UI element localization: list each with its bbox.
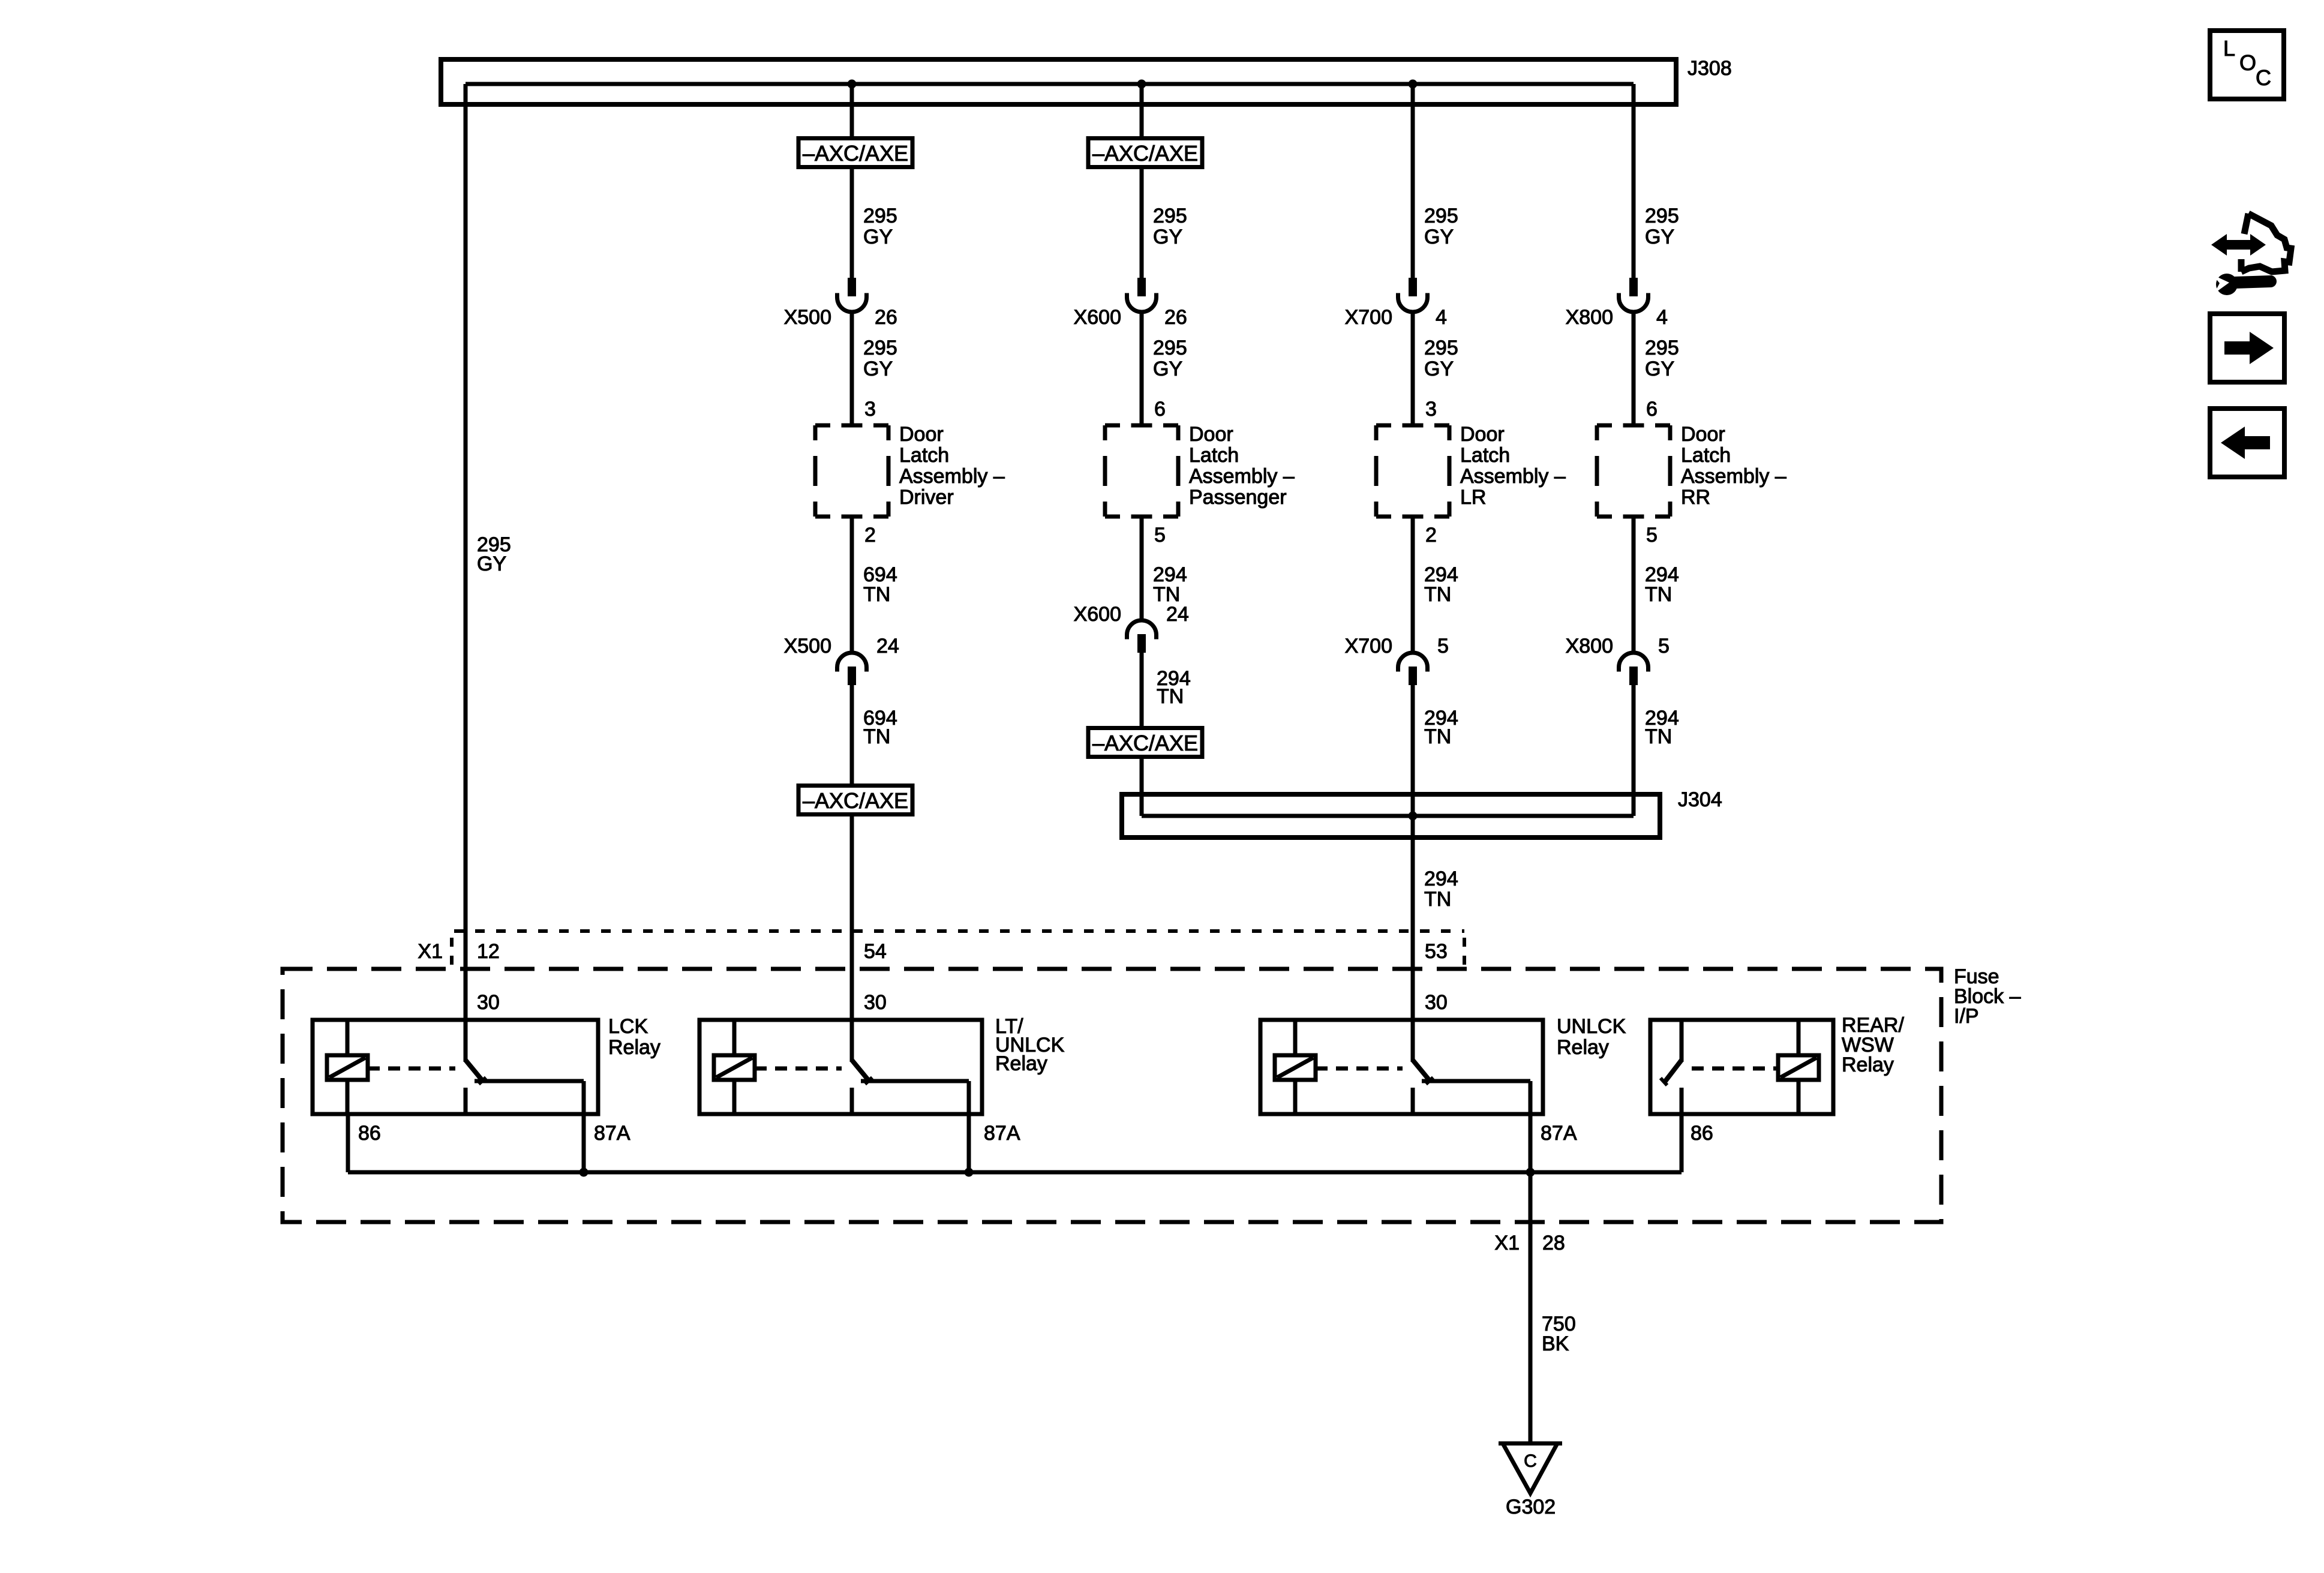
node splice J308 LR bbox=[1409, 80, 1418, 89]
svg-text:TN: TN bbox=[863, 725, 890, 748]
wire 295 GY RR below X800 bbox=[1632, 312, 1636, 425]
relay UNLCK switch pivot bbox=[1411, 1020, 1415, 1062]
relay UNLCK contact to output bbox=[1422, 1079, 1530, 1083]
wire 295 GY left drop J308 to LCK relay bbox=[464, 84, 468, 1062]
svg-text:GY: GY bbox=[1153, 226, 1182, 248]
svg-text:L: L bbox=[2223, 36, 2235, 61]
svg-text:X700: X700 bbox=[1345, 635, 1392, 658]
relay LCK box bbox=[313, 1020, 598, 1114]
svg-text:O: O bbox=[2239, 50, 2256, 75]
wire REAR/WSW pin 86 drop bbox=[1680, 1114, 1684, 1172]
relay LT/UNLCK contact to output bbox=[861, 1079, 969, 1083]
relay LCK coil wire bottom bbox=[346, 1080, 350, 1114]
svg-text:–AXC/AXE: –AXC/AXE bbox=[1092, 731, 1198, 755]
relay REAR/WSW switch throw stub bbox=[1680, 1088, 1684, 1114]
svg-text:5: 5 bbox=[1437, 635, 1449, 658]
node splice UNLCK 87A bbox=[1526, 1168, 1535, 1177]
connector X700 pin 4 female terminal bbox=[1398, 293, 1428, 313]
svg-text:Assembly –: Assembly – bbox=[1189, 465, 1295, 488]
svg-text:X1: X1 bbox=[1494, 1232, 1520, 1254]
svg-text:X700: X700 bbox=[1345, 306, 1392, 329]
relay LCK switch blade bbox=[466, 1060, 482, 1080]
svg-text:GY: GY bbox=[1153, 358, 1182, 380]
svg-text:X500: X500 bbox=[784, 635, 831, 658]
svg-text:4: 4 bbox=[1656, 306, 1668, 329]
door latch assembly passenger dashed box bbox=[1105, 425, 1178, 517]
svg-text:12: 12 bbox=[477, 940, 500, 963]
svg-text:24: 24 bbox=[876, 635, 899, 658]
svg-text:–AXC/AXE: –AXC/AXE bbox=[803, 788, 908, 813]
svg-text:Passenger: Passenger bbox=[1189, 486, 1287, 509]
connector X800 pin 5 female terminal bbox=[1619, 653, 1649, 672]
svg-text:30: 30 bbox=[1425, 991, 1448, 1014]
fuse block I/P dashed border bbox=[283, 969, 1941, 1222]
svg-text:54: 54 bbox=[864, 940, 887, 963]
svg-text:Relay: Relay bbox=[608, 1036, 660, 1059]
svg-text:2: 2 bbox=[864, 524, 876, 547]
relay UNLCK box bbox=[1260, 1020, 1543, 1114]
wire passenger into J304 bbox=[1140, 759, 1144, 816]
svg-text:GY: GY bbox=[863, 358, 893, 380]
svg-text:295: 295 bbox=[1424, 337, 1458, 359]
svg-text:Latch: Latch bbox=[1460, 444, 1510, 467]
svg-text:5: 5 bbox=[1154, 524, 1166, 547]
svg-text:I/P: I/P bbox=[1954, 1005, 1979, 1028]
connector X500 pin 24 female terminal bbox=[837, 653, 867, 672]
svg-text:295: 295 bbox=[1424, 205, 1458, 227]
connector X800 pin 5 male pin bbox=[1629, 667, 1638, 685]
wire 750 BK UNLCK 87A to ground G302 bbox=[1529, 1114, 1533, 1443]
splice pack -AXC/AXE driver top box bbox=[798, 139, 912, 167]
svg-text:TN: TN bbox=[1424, 583, 1451, 606]
door latch assembly RR dashed box bbox=[1597, 425, 1670, 517]
wire 295 GY passenger above X600 bbox=[1140, 169, 1144, 278]
wire 294 TN passenger upper bbox=[1140, 517, 1144, 620]
node splice LCK 87A bbox=[580, 1168, 588, 1177]
relay LCK switch pivot bbox=[464, 1020, 468, 1062]
relay LT/UNLCK switch blade bbox=[852, 1060, 869, 1080]
junction block J308 box bbox=[441, 59, 1676, 104]
wire LT/UNLCK pin 87A drop bbox=[967, 1114, 971, 1172]
connector X700 pin 4 male pin bbox=[1409, 278, 1417, 296]
svg-text:30: 30 bbox=[864, 991, 887, 1014]
svg-text:Latch: Latch bbox=[1681, 444, 1731, 467]
connector X700 pin 5 male pin bbox=[1409, 667, 1417, 685]
svg-text:295: 295 bbox=[1645, 205, 1679, 227]
door latch assembly driver dashed box bbox=[815, 425, 888, 517]
relay LCK actuator dashed link bbox=[368, 1067, 455, 1071]
wire 294 TN passenger lower bbox=[1140, 653, 1144, 728]
relay UNLCK coil bbox=[1275, 1055, 1316, 1080]
relay REAR/WSW switch pivot bbox=[1680, 1020, 1684, 1062]
wire 694 TN driver upper bbox=[850, 517, 854, 653]
svg-text:3: 3 bbox=[864, 398, 876, 421]
relay LT/UNLCK box bbox=[699, 1020, 982, 1114]
svg-text:X800: X800 bbox=[1566, 306, 1613, 329]
door latch assembly LR dashed box bbox=[1376, 425, 1449, 517]
svg-text:Latch: Latch bbox=[1189, 444, 1239, 467]
splice pack -AXC/AXE passenger bottom box bbox=[1088, 728, 1202, 757]
svg-text:26: 26 bbox=[875, 306, 897, 329]
relay UNLCK switch blade bbox=[1413, 1060, 1430, 1080]
svg-text:4: 4 bbox=[1436, 306, 1447, 329]
relay UNLCK actuator dashed link bbox=[1316, 1067, 1403, 1071]
svg-text:Latch: Latch bbox=[899, 444, 949, 467]
svg-text:86: 86 bbox=[1691, 1122, 1713, 1145]
relay LT/UNLCK switch throw stub bbox=[850, 1088, 854, 1114]
connector X600 pin 24 male pin bbox=[1137, 634, 1146, 653]
svg-text:5: 5 bbox=[1658, 635, 1670, 658]
node splice LT/UNLCK 87A bbox=[965, 1168, 974, 1177]
svg-text:295: 295 bbox=[1153, 205, 1187, 227]
svg-text:TN: TN bbox=[1424, 888, 1451, 911]
icon next arrow box bbox=[2210, 314, 2284, 382]
relay LT/UNLCK coil bbox=[714, 1055, 755, 1080]
svg-text:GY: GY bbox=[1645, 226, 1674, 248]
wire 295 GY driver below X500 bbox=[850, 312, 854, 425]
svg-text:GY: GY bbox=[863, 226, 893, 248]
wire driver to LT/UNLCK relay pin 54 bbox=[850, 816, 854, 1062]
node splice J304 LR bbox=[1409, 812, 1418, 821]
icon vehicle with double arrow and wrench bbox=[2211, 214, 2291, 295]
relay REAR/WSW actuator dashed link bbox=[1692, 1067, 1778, 1071]
svg-text:X1: X1 bbox=[418, 940, 443, 963]
svg-text:87A: 87A bbox=[984, 1122, 1020, 1145]
svg-text:295: 295 bbox=[1645, 337, 1679, 359]
svg-text:BK: BK bbox=[1542, 1332, 1569, 1355]
svg-text:28: 28 bbox=[1542, 1232, 1565, 1254]
svg-text:Relay: Relay bbox=[995, 1052, 1047, 1075]
svg-text:X500: X500 bbox=[784, 306, 831, 329]
relay UNLCK coil wire bottom bbox=[1293, 1080, 1298, 1114]
connector X500 pin 26 female terminal bbox=[837, 293, 867, 313]
wire 295 GY passenger below X600 bbox=[1140, 312, 1144, 425]
relay REAR/WSW box bbox=[1650, 1020, 1833, 1114]
svg-text:–AXC/AXE: –AXC/AXE bbox=[1092, 141, 1198, 166]
svg-text:Assembly –: Assembly – bbox=[899, 465, 1005, 488]
svg-text:295: 295 bbox=[863, 337, 897, 359]
relay LCK coil wire top bbox=[346, 1020, 350, 1057]
wire LR drop from J308 bbox=[1411, 84, 1415, 278]
wire LCK pin 86 drop bbox=[346, 1114, 350, 1172]
svg-text:295: 295 bbox=[1153, 337, 1187, 359]
bus wire inside J308 bbox=[466, 82, 1634, 86]
relay LCK switch throw stub bbox=[464, 1088, 468, 1114]
svg-text:GY: GY bbox=[1424, 226, 1454, 248]
svg-text:RR: RR bbox=[1681, 486, 1710, 509]
svg-text:Driver: Driver bbox=[899, 486, 954, 509]
node splice J308 passenger bbox=[1137, 80, 1146, 89]
relay LCK coil bbox=[327, 1055, 368, 1080]
connector X500 pin 24 male pin bbox=[848, 667, 856, 685]
wire LCK pin 87A drop bbox=[582, 1114, 586, 1172]
relay REAR/WSW coil wire top bbox=[1797, 1020, 1801, 1057]
splice pack -AXC/AXE driver bottom box bbox=[798, 786, 912, 815]
svg-text:294: 294 bbox=[1424, 867, 1458, 890]
connector X600 pin 24 female terminal bbox=[1127, 620, 1157, 640]
icon LOC box bbox=[2210, 31, 2284, 99]
wire 694 TN driver lower bbox=[850, 685, 854, 785]
relay LT/UNLCK actuator dashed link bbox=[755, 1067, 842, 1071]
svg-text:TN: TN bbox=[1645, 583, 1672, 606]
svg-text:UNLCK: UNLCK bbox=[1557, 1015, 1626, 1038]
wire 294 TN LR through J304 to UNLCK relay pin 53 bbox=[1411, 685, 1415, 1062]
relay LCK contact to output bbox=[475, 1079, 584, 1083]
wire passenger drop from J308 bbox=[1140, 84, 1144, 138]
svg-text:X800: X800 bbox=[1566, 635, 1613, 658]
svg-text:TN: TN bbox=[1424, 725, 1451, 748]
svg-text:TN: TN bbox=[863, 583, 890, 606]
splice pack -AXC/AXE passenger top box bbox=[1088, 139, 1202, 167]
svg-text:6: 6 bbox=[1154, 398, 1166, 421]
relay REAR/WSW switch blade bbox=[1664, 1060, 1682, 1083]
wire driver drop from J308 bbox=[850, 84, 854, 138]
wire 294 TN RR into J304 bbox=[1632, 685, 1636, 816]
icon previous arrow box bbox=[2210, 409, 2284, 477]
svg-text:Assembly –: Assembly – bbox=[1681, 465, 1786, 488]
svg-text:295: 295 bbox=[863, 205, 897, 227]
svg-text:Assembly –: Assembly – bbox=[1460, 465, 1566, 488]
relay REAR/WSW coil bbox=[1778, 1055, 1819, 1080]
svg-text:86: 86 bbox=[358, 1122, 381, 1145]
svg-text:LCK: LCK bbox=[608, 1015, 648, 1038]
relay LT/UNLCK switch pivot bbox=[850, 1020, 854, 1062]
icon previous arrow bbox=[2221, 427, 2270, 459]
svg-text:Door: Door bbox=[899, 423, 944, 446]
connector X1 dotted strip right end bbox=[1463, 938, 1466, 965]
svg-text:6: 6 bbox=[1646, 398, 1658, 421]
svg-text:GY: GY bbox=[1645, 358, 1674, 380]
connector X600 pin 26 female terminal bbox=[1127, 293, 1157, 313]
svg-text:C: C bbox=[1524, 1451, 1537, 1471]
wire 294 TN LR upper bbox=[1411, 517, 1415, 653]
svg-text:5: 5 bbox=[1646, 524, 1658, 547]
connector X1 dotted strip left end bbox=[450, 938, 454, 965]
relay UNLCK switch throw stub bbox=[1411, 1088, 1415, 1114]
svg-text:LR: LR bbox=[1460, 486, 1486, 509]
bus wire 86/87A common bbox=[348, 1170, 1682, 1175]
connector X1 dotted strip top bbox=[454, 929, 1464, 933]
svg-text:X600: X600 bbox=[1074, 306, 1121, 329]
svg-text:X600: X600 bbox=[1074, 603, 1121, 626]
svg-text:87A: 87A bbox=[1541, 1122, 1577, 1145]
svg-text:3: 3 bbox=[1425, 398, 1437, 421]
svg-text:24: 24 bbox=[1166, 603, 1189, 626]
connector X600 pin 26 male pin bbox=[1137, 278, 1146, 296]
svg-text:GY: GY bbox=[1424, 358, 1454, 380]
wire 295 GY LR below X700 bbox=[1411, 312, 1415, 425]
connector X700 pin 5 female terminal bbox=[1398, 653, 1428, 672]
connector X800 pin 4 male pin bbox=[1629, 278, 1638, 296]
svg-text:2: 2 bbox=[1425, 524, 1437, 547]
relay LT/UNLCK coil wire top bbox=[732, 1020, 737, 1057]
relay LT/UNLCK coil wire bottom bbox=[732, 1080, 737, 1114]
svg-text:Relay: Relay bbox=[1557, 1036, 1609, 1059]
svg-text:26: 26 bbox=[1164, 306, 1187, 329]
svg-text:GY: GY bbox=[477, 553, 506, 575]
svg-text:Door: Door bbox=[1460, 423, 1505, 446]
bus wire inside J304 bbox=[1142, 814, 1634, 818]
relay UNLCK coil wire top bbox=[1293, 1020, 1298, 1057]
junction block J304 box bbox=[1122, 794, 1660, 837]
ground symbol G302 triangle bbox=[1503, 1443, 1557, 1493]
svg-text:30: 30 bbox=[477, 991, 500, 1014]
svg-text:TN: TN bbox=[1157, 685, 1184, 708]
connector X800 pin 4 female terminal bbox=[1619, 293, 1649, 313]
svg-text:J304: J304 bbox=[1678, 788, 1722, 811]
svg-text:G302: G302 bbox=[1506, 1496, 1556, 1518]
icon next arrow bbox=[2224, 332, 2274, 364]
wire 295 GY driver above X500 bbox=[850, 169, 854, 278]
node splice J308 driver bbox=[848, 80, 857, 89]
relay REAR/WSW coil wire bottom bbox=[1797, 1080, 1801, 1114]
svg-text:J308: J308 bbox=[1688, 57, 1732, 80]
svg-text:–AXC/AXE: –AXC/AXE bbox=[803, 141, 908, 166]
svg-text:Door: Door bbox=[1189, 423, 1233, 446]
connector X500 pin 26 male pin bbox=[848, 278, 856, 296]
svg-text:Relay: Relay bbox=[1842, 1053, 1894, 1076]
svg-text:C: C bbox=[2256, 65, 2271, 90]
wire 294 TN RR upper bbox=[1632, 517, 1636, 653]
svg-text:Door: Door bbox=[1681, 423, 1725, 446]
svg-text:87A: 87A bbox=[594, 1122, 630, 1145]
wire RR drop from J308 bbox=[1632, 84, 1636, 278]
svg-text:53: 53 bbox=[1425, 940, 1448, 963]
svg-text:TN: TN bbox=[1645, 725, 1672, 748]
